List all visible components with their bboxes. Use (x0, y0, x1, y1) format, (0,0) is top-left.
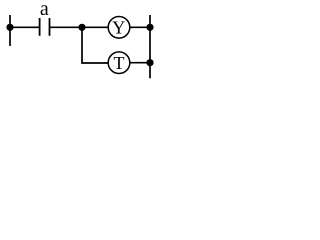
left rail (9, 15, 11, 46)
wire (10, 26, 40, 28)
wire T branch (82, 27, 108, 63)
wire (50, 26, 109, 28)
node right top (146, 24, 153, 31)
svg-text:T: T (114, 53, 125, 73)
node left (6, 24, 13, 31)
wire (130, 26, 150, 28)
node right bottom (146, 59, 153, 66)
wire (130, 62, 150, 64)
contact a right bar (49, 18, 51, 36)
coil Y (108, 17, 130, 39)
svg-text:a: a (40, 0, 49, 20)
contact a left bar (39, 18, 41, 36)
right rail (149, 15, 151, 78)
node junction (78, 24, 85, 31)
svg-text:Y: Y (112, 18, 125, 38)
coil T (108, 52, 130, 74)
